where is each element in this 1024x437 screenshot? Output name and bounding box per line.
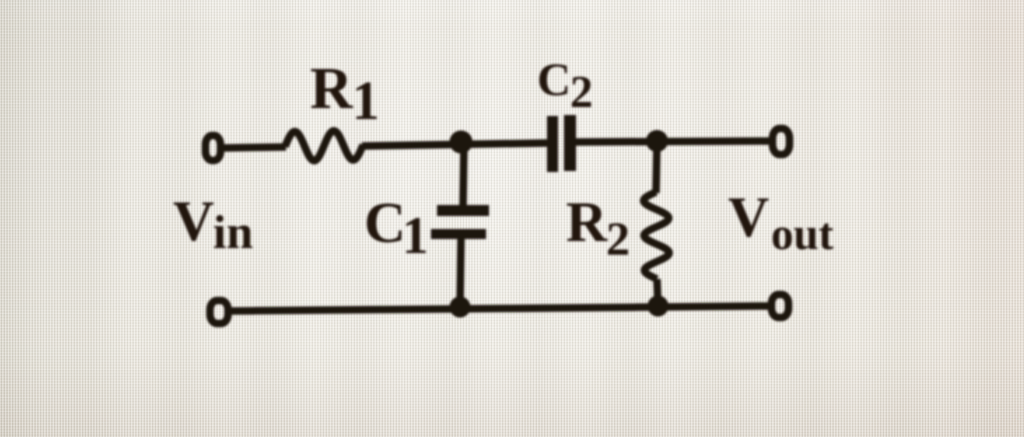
resistor R1 [285, 131, 363, 161]
svg-text:R: R [310, 55, 354, 121]
svg-text:V: V [728, 186, 769, 249]
node A junction dot [450, 131, 473, 154]
wire: input terminal to R1 [221, 147, 286, 148]
svg-text:R: R [566, 191, 608, 254]
svg-text:1: 1 [402, 207, 429, 265]
capacitor C1 [431, 205, 489, 239]
bottom node B dot [648, 296, 669, 317]
ground terminal (bottom-right) [772, 295, 789, 318]
wire: C1 to bottom node [460, 239, 461, 306]
svg-text:1: 1 [352, 70, 380, 131]
wire: R1 through node A to C2 [362, 143, 547, 146]
svg-text:C: C [537, 54, 571, 106]
svg-text:out: out [771, 209, 834, 259]
wire: node B down to R2 [656, 141, 657, 193]
svg-text:V: V [173, 190, 214, 253]
wire: C2 through node B to output terminal [576, 141, 772, 142]
svg-text:2: 2 [570, 66, 593, 117]
resistor R2 [644, 192, 670, 279]
ground terminal (bottom-left) [210, 301, 228, 324]
capacitor C2 [547, 115, 576, 172]
wire: node A down to C1 [463, 142, 464, 206]
bottom node A dot [450, 297, 471, 318]
svg-text:in: in [213, 206, 253, 259]
input terminal (top-left) [206, 136, 221, 161]
svg-text:2: 2 [606, 213, 630, 266]
wire: R2 to bottom node [657, 279, 658, 306]
bottom wire (ground rail) [229, 306, 772, 311]
node B junction dot [646, 130, 668, 152]
output terminal (top-right) [773, 129, 790, 155]
svg-text:C: C [364, 190, 406, 255]
